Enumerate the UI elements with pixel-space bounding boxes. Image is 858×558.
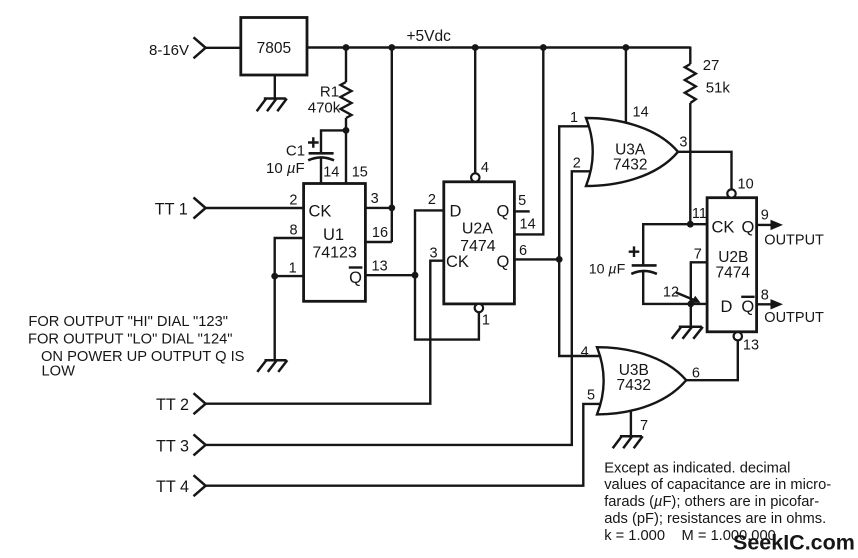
svg-text:8: 8 (290, 223, 298, 239)
wire U2B ground stem (690, 304, 692, 327)
IC U2A 7474 box (444, 182, 515, 304)
svg-text:7: 7 (640, 418, 648, 434)
ground below U1 pins 1-8 (257, 360, 287, 372)
bubble U2B pin13 (734, 332, 742, 340)
wire U1 pins 3 and 16 riser (365, 48, 391, 243)
svg-text:8: 8 (761, 287, 769, 303)
svg-text:6: 6 (692, 365, 700, 381)
ground below U2B pin12 (672, 327, 703, 339)
svg-text:C1: C1 (286, 143, 305, 160)
wire U1 pins 8 and 1 to ground (275, 238, 304, 360)
wire TT1 to U1 CK (205, 207, 303, 209)
svg-text:Except as indicated. decimal: Except as indicated. decimal (604, 460, 790, 476)
wire U2A pin4 riser (474, 48, 476, 174)
svg-text:51k: 51k (706, 80, 731, 97)
svg-text:2: 2 (573, 155, 581, 171)
svg-text:14: 14 (520, 217, 536, 233)
wire U2A pin2 D riser (415, 210, 479, 339)
wire U2A pin3 CK riser and TT2 (205, 261, 443, 404)
svg-text:4: 4 (481, 160, 489, 176)
wire U2A pin5 stub (514, 210, 529, 212)
regulator 7805 box (241, 18, 307, 76)
input chevron TT3 (194, 434, 206, 455)
svg-text:3: 3 (679, 135, 687, 151)
svg-text:Q: Q (349, 269, 362, 287)
resistor 51k (685, 64, 696, 103)
ground below U3B pin7 (613, 436, 643, 448)
svg-text:14: 14 (323, 165, 339, 181)
arrowhead pin9 (771, 220, 784, 230)
junction dot rail U2A pin14 (540, 44, 547, 51)
wire U2B pin9 output (757, 224, 774, 226)
input chevron 8-16V (194, 37, 206, 58)
svg-text:2: 2 (428, 192, 436, 208)
svg-text:9: 9 (761, 207, 769, 223)
svg-text:7805: 7805 (257, 40, 291, 57)
svg-text:11: 11 (692, 206, 707, 222)
svg-text:7474: 7474 (716, 264, 751, 281)
junction dot rail U3A pin14 (623, 44, 630, 51)
junction dot U1 pin13 D riser (412, 272, 419, 279)
annotation arrow pin12 (676, 293, 694, 301)
svg-text:TT 3: TT 3 (156, 437, 189, 455)
svg-text:TT 2: TT 2 (156, 396, 189, 414)
junction dot R1 bottom C1 (343, 127, 350, 134)
svg-text:U2B: U2B (718, 249, 748, 266)
svg-text:TT 4: TT 4 (156, 478, 189, 496)
capacitor C1 (308, 153, 334, 160)
svg-text:k = 1.000: k = 1.000 (604, 528, 665, 544)
svg-text:+5Vdc: +5Vdc (407, 28, 452, 45)
bubble U2B pin10 (727, 189, 735, 197)
svg-text:Q: Q (741, 298, 754, 316)
bubble U2A pin1 (475, 304, 483, 312)
wire U3B pin7 stub (630, 404, 632, 435)
svg-text:14: 14 (633, 104, 649, 120)
wire U2B pin7 (691, 262, 707, 304)
input chevron TT2 (194, 393, 206, 414)
svg-text:LOW: LOW (42, 364, 76, 380)
svg-text:OUTPUT: OUTPUT (764, 310, 824, 326)
svg-text:7432: 7432 (613, 157, 647, 174)
svg-text:3: 3 (429, 245, 437, 261)
svg-text:13: 13 (372, 258, 388, 274)
svg-text:12: 12 (663, 284, 679, 300)
bubble U2A pin4 (471, 173, 479, 181)
svg-text:7: 7 (694, 246, 702, 262)
input chevron TT4 (194, 475, 206, 496)
svg-text:5: 5 (518, 193, 526, 209)
IC U2B 7474 box (707, 198, 757, 332)
svg-text:1: 1 (482, 312, 490, 328)
op-amp gate U3B 7432 (597, 347, 686, 414)
wire U3A.2 to TT3 riser (205, 171, 596, 445)
svg-text:4: 4 (581, 344, 589, 360)
svg-text:10: 10 (738, 176, 754, 192)
svg-text:3: 3 (371, 191, 379, 207)
junction dot U1 pins 1-8 (271, 273, 278, 280)
svg-text:15: 15 (352, 165, 368, 181)
arrowhead pin8 (771, 299, 784, 309)
svg-text:6: 6 (519, 243, 527, 259)
wire U2B pin8 output (757, 303, 774, 305)
wire U1 pin13 Qbar (365, 274, 415, 276)
node +5Vdc rail wire (307, 46, 690, 48)
capacitor 10uF at U2B (631, 265, 657, 274)
svg-text:Q: Q (497, 202, 510, 220)
wire U2A pin6 Q (514, 258, 559, 260)
wire 51k riser (689, 47, 691, 225)
junction dot rail U1 riser (388, 44, 395, 51)
input chevron TT1 (194, 198, 206, 219)
svg-text:27: 27 (703, 57, 720, 74)
svg-text:CK: CK (309, 203, 332, 221)
svg-text:Q: Q (497, 253, 510, 271)
wire input 8-16V to 7805 (205, 47, 241, 49)
svg-text:13: 13 (743, 337, 759, 353)
junction dot rail R1 (343, 44, 350, 51)
resistor R1 (341, 82, 352, 118)
svg-text:R1: R1 (320, 84, 339, 101)
svg-text:74123: 74123 (312, 245, 357, 262)
junction dot U1 pin3 (388, 205, 395, 212)
wire U3A.1 to U3B.4 riser (559, 126, 604, 356)
plus sign 10uF U2B (629, 246, 640, 257)
svg-text:U2A: U2A (462, 220, 493, 237)
junction dot 51k U2B pin11 (687, 221, 694, 228)
svg-text:470k: 470k (308, 100, 341, 117)
wire R1 riser (345, 48, 347, 184)
svg-text:10 µF: 10 µF (589, 261, 626, 277)
svg-text:Q: Q (742, 219, 755, 237)
svg-text:7432: 7432 (617, 377, 651, 394)
svg-text:TT 1: TT 1 (155, 201, 188, 219)
wire C1 branch (321, 130, 346, 183)
svg-text:ads (pF); resistances are in o: ads (pF); resistances are in ohms. (604, 511, 826, 527)
wire U2A pin14 riser (514, 48, 543, 235)
ground below 7805 (257, 99, 287, 112)
svg-text:U1: U1 (323, 226, 344, 244)
svg-text:5: 5 (587, 387, 595, 403)
svg-text:8-16V: 8-16V (149, 42, 189, 59)
svg-text:1: 1 (570, 110, 578, 126)
svg-text:farads (µF); others are in pic: farads (µF); others are in picofar- (604, 494, 819, 510)
wire U3B.5 to TT4 riser (205, 404, 605, 486)
wire U2B pin11 CK and cap branch (643, 224, 707, 304)
svg-text:FOR OUTPUT "LO" DIAL "124": FOR OUTPUT "LO" DIAL "124" (28, 332, 233, 348)
wire U2B pin13 to U3B output (684, 341, 738, 381)
wire U3A pin14 riser (625, 48, 627, 129)
svg-text:1: 1 (289, 261, 297, 277)
svg-text:10 µF: 10 µF (266, 160, 305, 177)
op-amp gate U3A 7432 (586, 118, 678, 186)
svg-text:values of capacitance are in m: values of capacitance are in micro- (604, 477, 831, 493)
junction dot U2A pin6 riser (556, 256, 563, 263)
svg-text:SeekIC.com: SeekIC.com (733, 531, 855, 555)
svg-text:16: 16 (372, 225, 388, 241)
svg-text:D: D (450, 202, 462, 220)
plus sign C1 (308, 137, 319, 148)
junction dot rail U2A pin4 (472, 44, 479, 51)
svg-text:FOR OUTPUT "HI" DIAL "123": FOR OUTPUT "HI" DIAL "123" (28, 314, 228, 330)
svg-text:OUTPUT: OUTPUT (764, 233, 824, 249)
junction dot U2B pin12 ground (687, 301, 694, 308)
svg-text:D: D (721, 298, 733, 316)
svg-text:CK: CK (446, 253, 469, 271)
svg-text:CK: CK (712, 219, 735, 237)
wire U3A output to U2B pin10 (676, 152, 732, 190)
svg-text:2: 2 (289, 193, 297, 209)
wire 7805 ground stem (274, 75, 276, 98)
IC U1 74123 box (304, 184, 366, 302)
